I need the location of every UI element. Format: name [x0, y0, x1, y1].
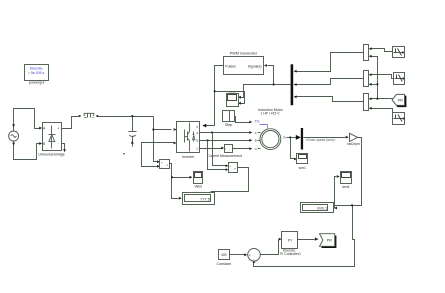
display Display2 (999.1, flipped): [301, 203, 334, 213]
svg-text:Pulses: Pulses: [225, 64, 236, 68]
svg-text:PI Controller1: PI Controller1: [280, 252, 301, 256]
relay block 1 (reference current a): [393, 47, 405, 58]
scope wm2: [341, 172, 352, 189]
wire sum to PI controller: [261, 238, 282, 255]
svg-text:Step: Step: [225, 123, 232, 127]
svg-text:-: -: [229, 149, 230, 152]
wire mux2 output to mux input 2: [294, 79, 364, 86]
wire inverter output A to motor: [200, 131, 253, 134]
wire bridge - output stub: [62, 144, 66, 153]
mux M3 (2-input, flipped): [364, 94, 369, 111]
svg-text:Vab2: Vab2: [194, 184, 202, 188]
wire AC source top loop to bridge input A: [12, 109, 42, 131]
relay block 3 (reference current c): [393, 113, 405, 125]
wire relay3 to mux3 input 2: [369, 107, 393, 113]
svg-text:PWM Generator: PWM Generator: [230, 51, 258, 55]
svg-text:PI: PI: [288, 237, 292, 242]
wire PWM pulses output to inverter g and scope: [202, 66, 244, 128]
induction motor M1: [255, 108, 286, 151]
sum block S1: [248, 249, 261, 262]
svg-text:-: -: [229, 168, 230, 172]
svg-text:-: -: [58, 142, 59, 146]
scope Vdc2: [194, 172, 203, 189]
svg-text:powergui: powergui: [29, 81, 45, 85]
wire gain output down to display2 scope wm2 and feedback: [253, 138, 362, 267]
scope Scope (pulses, flipped): [227, 89, 239, 106]
svg-text:Tm: Tm: [255, 119, 260, 123]
svg-text:B: B: [43, 142, 45, 146]
svg-text:wm4: wm4: [342, 185, 349, 189]
wire PR distribution to mux1 input 2: [369, 55, 378, 99]
inductor L (series RL branch): [84, 113, 94, 117]
relay block 2 (reference current b): [394, 73, 405, 85]
wire DC+ bus: [97, 115, 154, 117]
svg-text:PR: PR: [398, 98, 403, 102]
PWM Generator block: [224, 51, 264, 74]
svg-text:999.1: 999.1: [317, 205, 328, 210]
powergui block: [25, 65, 49, 85]
wire phase A tap to voltage measurement 2: [213, 133, 229, 168]
wire motor m output to bus selector and scope wm1: [287, 135, 301, 161]
wire relay1 to mux1 input 1: [369, 47, 393, 51]
wire inverter output B to motor: [200, 139, 253, 142]
wire relay2 to mux2 input 1: [369, 73, 394, 78]
mux M1 (2-input, flipped): [364, 45, 369, 61]
wire rotor speed to gain: [304, 136, 349, 142]
wire display top to current measurement 2 output: [211, 168, 249, 192]
svg-text:<Rotor speed (wm)>: <Rotor speed (wm)>: [306, 138, 336, 142]
scope wm1: [297, 154, 308, 170]
wire Vdc measurement to scope and display: [170, 164, 193, 200]
wire mux1 output to mux input 1: [294, 53, 364, 73]
svg-text:B: B: [196, 139, 198, 143]
bus selector (motor measurements): [301, 128, 303, 150]
wire PR distribution to mux2 input 2: [369, 83, 379, 86]
wire constant to sum: [230, 253, 248, 256]
svg-text:PR: PR: [327, 239, 332, 243]
AC voltage source V1: [9, 131, 19, 141]
display Display1 (777.5): [183, 193, 215, 205]
current measurement CM1: [207, 145, 242, 158]
svg-text:+: +: [249, 253, 251, 257]
wire mux output to PWM Generator input: [238, 64, 291, 99]
svg-text:400: 400: [221, 253, 227, 257]
svg-text:A: A: [255, 131, 257, 135]
svg-text:1 HP / 415 V: 1 HP / 415 V: [260, 112, 280, 116]
svg-text:Universal Bridge: Universal Bridge: [38, 152, 64, 156]
wire DC+ down to inverter and voltage measurement: [152, 117, 176, 164]
wire From tag PR to mux3 input 1: [369, 97, 393, 100]
inverter U2 (IGBT bridge): [177, 122, 200, 159]
svg-text:-: -: [161, 165, 162, 169]
svg-text:+: +: [58, 127, 60, 131]
mux (3-input, to PWM): [291, 64, 294, 105]
svg-text:= 5e-005 s.: = 5e-005 s.: [28, 71, 45, 75]
constant block (400): [217, 250, 231, 266]
svg-text:Signal(s): Signal(s): [248, 64, 262, 68]
wire Step to motor Tm: [235, 117, 268, 129]
wire AC source bottom loop to bridge input B: [12, 142, 42, 160]
svg-text:scope: scope: [228, 89, 236, 93]
svg-text:777.5: 777.5: [200, 196, 211, 201]
step block Step: [223, 111, 235, 128]
svg-text:m: m: [283, 136, 286, 140]
goto tag PR: [320, 234, 336, 248]
svg-text:A: A: [196, 131, 198, 135]
wire current measurement to motor C: [233, 147, 253, 150]
capacitor C (DC link): [124, 117, 137, 156]
svg-text:wm1: wm1: [299, 166, 306, 170]
rectifier Universal Bridge: [38, 123, 64, 157]
wire DC- to inverter and voltage measurement: [142, 142, 177, 168]
wire phase B tap to voltage measurement 2: [208, 141, 229, 172]
wire mux3 output to mux input 3: [294, 95, 364, 101]
svg-text:Inverter: Inverter: [182, 155, 195, 159]
svg-text:B: B: [255, 139, 257, 143]
svg-text:rad2rpm: rad2rpm: [347, 142, 360, 146]
PI controller block: [280, 232, 301, 257]
wire PI to goto tag: [298, 237, 319, 240]
From tag PR: [392, 94, 406, 106]
voltage measurement 2 (Vab): [229, 163, 238, 173]
gain rad2rpm: [347, 133, 360, 146]
svg-text:Constant: Constant: [217, 262, 231, 266]
mux M2 (2-input, flipped): [364, 71, 369, 87]
voltage measurement Vdc: [160, 160, 170, 169]
wire inverter output C to current measurement: [200, 147, 225, 150]
wire bridge + output to DC bus: [62, 115, 81, 129]
